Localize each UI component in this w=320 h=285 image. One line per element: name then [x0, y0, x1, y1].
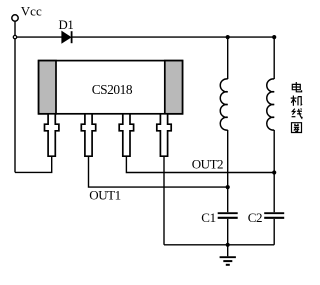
svg-text:OUT1: OUT1 [89, 187, 120, 202]
label 机 (motor coil text char 2) [291, 96, 302, 106]
label 电 (motor coil text char 1) [292, 82, 301, 92]
svg-text:C1: C1 [201, 210, 216, 225]
junction dot OUT1 column A [226, 185, 230, 189]
diode D1 [62, 31, 72, 43]
pin 3 [119, 114, 133, 156]
IC U1 left metal tab [39, 61, 56, 114]
wire pin3 to OUT2 [126, 156, 274, 172]
svg-text:OUT2: OUT2 [192, 156, 223, 171]
junction dot OUT2 column B [272, 170, 276, 174]
junction dot top rail column B [272, 35, 276, 39]
junction small circle at Vcc rail [13, 35, 16, 38]
ground [220, 245, 236, 265]
capacitor C1 [218, 213, 238, 218]
svg-text:Vcc: Vcc [21, 4, 42, 19]
wire column A middle [227, 130, 229, 212]
pin 1 [45, 114, 59, 156]
wire top rail anode side [15, 36, 62, 38]
wire pin4 to ground rail [163, 156, 165, 245]
svg-text:C2: C2 [248, 210, 263, 225]
wire Vcc vertical rail [14, 21, 16, 173]
capacitor C2 [264, 213, 284, 218]
terminal Vcc [12, 15, 18, 21]
pin 2 [81, 114, 95, 156]
inductor L1 motor coil A [220, 79, 227, 130]
label 圈 (motor coil text char 4) [292, 123, 302, 133]
label 线 (motor coil text char 3) [292, 109, 303, 119]
svg-text:D1: D1 [59, 18, 74, 32]
wire column A lower [227, 219, 229, 245]
svg-text:CS2018: CS2018 [92, 82, 133, 97]
pin 4 [157, 114, 171, 156]
IC U1 package body [39, 61, 183, 114]
inductor L2 motor coil B [267, 79, 274, 130]
wire column B middle [273, 130, 275, 212]
wire left bottom to pin1 [15, 156, 52, 172]
wire column A upper stub [227, 37, 229, 79]
wire pin2 to OUT1 [89, 156, 228, 187]
wire column B lower [273, 219, 275, 245]
wire bottom ground rail [164, 244, 274, 246]
junction dot top rail column A [226, 35, 230, 39]
wire top rail cathode side [72, 36, 274, 38]
IC U1 right metal tab [165, 61, 183, 114]
wire column B upper stub [273, 37, 275, 79]
junction dot ground rail [226, 243, 230, 247]
